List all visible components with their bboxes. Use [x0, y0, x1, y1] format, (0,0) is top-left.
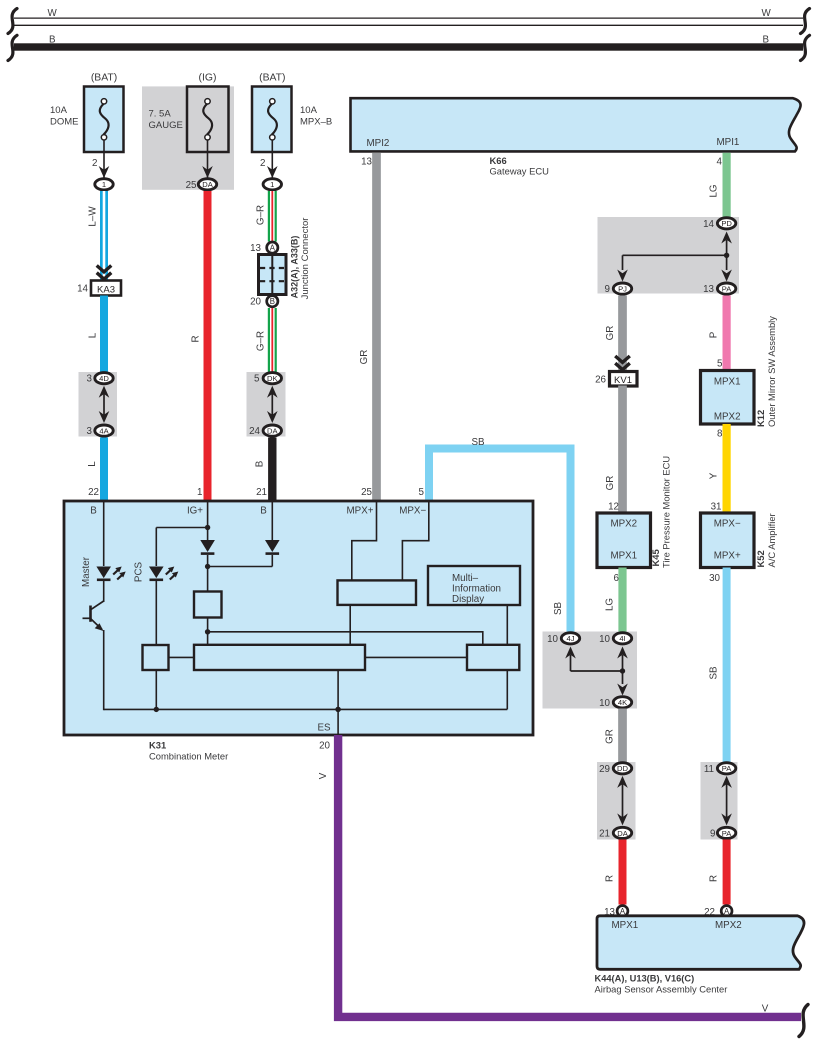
connector oval DA (GAUGE) — [198, 179, 216, 190]
wire LG (MPI1 to PD) — [722, 153, 730, 218]
svg-text:11: 11 — [704, 764, 714, 775]
svg-text:SB: SB — [471, 437, 485, 448]
wire MID box down — [506, 605, 508, 645]
diode D2 (B) — [265, 540, 280, 552]
wire horizontal mid (to right box) — [208, 632, 483, 645]
wire diode D1 down — [207, 555, 209, 592]
svg-text:K66: K66 — [490, 155, 507, 166]
component box IG+ — [194, 592, 222, 618]
wire Master LED to transistor — [103, 581, 105, 602]
connector arrows 4D-4A — [99, 386, 110, 423]
wire MPX box down — [349, 605, 351, 645]
svg-text:B: B — [49, 35, 56, 46]
svg-text:GR: GR — [605, 326, 616, 341]
svg-text:W: W — [762, 8, 772, 19]
connector KA3 box — [91, 281, 121, 296]
svg-text:13: 13 — [703, 284, 714, 295]
connector oval 4J — [561, 633, 579, 644]
svg-text:10: 10 — [599, 634, 610, 645]
wire L upper — [100, 296, 108, 373]
svg-text:A32(A), A33(B): A32(A), A33(B) — [290, 236, 300, 299]
svg-text:1: 1 — [197, 487, 202, 498]
svg-text:W: W — [48, 8, 58, 19]
wire IG+ box down — [207, 618, 209, 646]
gray background 4D-4A — [79, 372, 118, 437]
svg-text:PA: PA — [722, 285, 733, 294]
svg-text:B: B — [763, 35, 770, 46]
fuse DOME arrow — [99, 166, 110, 178]
svg-text:V: V — [318, 772, 329, 779]
svg-text:10A: 10A — [300, 105, 318, 116]
svg-text:B: B — [260, 506, 267, 517]
fuse DOME lead wire — [103, 140, 105, 178]
svg-text:13: 13 — [250, 243, 261, 254]
svg-text:R: R — [709, 875, 720, 882]
transistor Q (meter) — [83, 601, 104, 631]
svg-text:9: 9 — [710, 828, 715, 839]
junction dot PCS rail — [154, 707, 159, 712]
svg-text:(BAT): (BAT) — [91, 73, 117, 84]
svg-text:MPI2: MPI2 — [367, 138, 390, 149]
svg-text:10: 10 — [547, 634, 558, 645]
svg-text:10A: 10A — [50, 105, 68, 116]
svg-text:Information: Information — [452, 584, 501, 595]
svg-text:MPX−: MPX− — [714, 519, 741, 530]
svg-text:L: L — [87, 461, 98, 467]
svg-text:5: 5 — [254, 374, 260, 385]
svg-text:KA3: KA3 — [97, 284, 115, 295]
connector KV1 box — [610, 372, 638, 387]
svg-text:Tire Pressure Monitor ECU: Tire Pressure Monitor ECU — [661, 456, 672, 568]
wire horizontal IG+ to PCS — [156, 527, 207, 529]
connector wiring 4J-4I-4K — [565, 647, 628, 696]
svg-text:Airbag Sensor Assembly Center: Airbag Sensor Assembly Center — [595, 984, 728, 995]
gray background 4J-4I-4K — [543, 632, 638, 709]
svg-text:13: 13 — [361, 157, 372, 168]
wire GR (4K to DD) — [618, 709, 627, 763]
fuse GAUGE arrow — [202, 166, 213, 178]
connector oval 1 (MPX-B) — [263, 179, 281, 190]
fuse GAUGE lead wire — [207, 140, 209, 178]
wire PCS column upper — [155, 528, 157, 567]
meter K31 box — [64, 501, 533, 735]
svg-text:4I: 4I — [619, 634, 625, 643]
ECU K45 box — [597, 513, 651, 568]
wire horizontal D1-D2 — [208, 566, 273, 568]
svg-text:DA: DA — [267, 427, 278, 436]
junction dot IG+ lower — [205, 629, 210, 634]
svg-text:P: P — [709, 331, 720, 338]
wire PCS box to long box — [169, 656, 195, 658]
display box Multi-Information — [428, 566, 520, 605]
connector oval 4D — [95, 373, 113, 384]
fuse MPX-B lead wire — [271, 140, 273, 178]
svg-text:MPI1: MPI1 — [717, 137, 740, 148]
svg-text:MPX–B: MPX–B — [300, 117, 332, 128]
svg-text:4K: 4K — [618, 698, 627, 707]
svg-text:14: 14 — [77, 284, 88, 295]
component box right — [467, 645, 519, 670]
gray background DD-DA — [597, 762, 636, 840]
svg-text:5: 5 — [717, 359, 723, 370]
svg-text:2: 2 — [260, 158, 265, 169]
wire GR (MPI2 to K31) — [372, 153, 381, 501]
svg-text:Combination Meter: Combination Meter — [149, 751, 228, 762]
svg-text:21: 21 — [599, 828, 610, 839]
svg-text:GR: GR — [359, 350, 370, 365]
ECU airbag box — [597, 916, 804, 970]
junction circle B — [267, 296, 278, 307]
bus B left tear — [8, 35, 17, 60]
svg-text:KV1: KV1 — [614, 375, 632, 386]
svg-text:ES: ES — [318, 723, 332, 734]
wire SB (K52 to PA) — [723, 568, 731, 763]
wire diode D2 down — [271, 555, 273, 567]
bus W wire — [14, 18, 803, 25]
connector wiring PD-PJ-PA — [617, 232, 732, 282]
svg-text:Master: Master — [81, 556, 92, 587]
svg-text:B: B — [255, 460, 266, 467]
gray background PA-PA — [701, 762, 738, 840]
svg-text:GR: GR — [605, 476, 616, 491]
connector arrows PA-PA — [721, 776, 732, 826]
wire MPX+ into box — [352, 501, 377, 580]
connector oval 4K — [613, 697, 631, 708]
svg-text:26: 26 — [595, 374, 606, 385]
component box main (long) — [194, 645, 365, 670]
svg-text:4D: 4D — [99, 374, 109, 383]
wire long box to right box — [365, 656, 467, 658]
svg-text:2: 2 — [92, 158, 97, 169]
svg-text:1: 1 — [270, 180, 274, 189]
wire V right tear — [799, 1005, 808, 1037]
svg-text:MPX+: MPX+ — [347, 506, 374, 517]
svg-text:SB: SB — [553, 602, 564, 616]
svg-text:DA: DA — [617, 829, 628, 838]
svg-text:(BAT): (BAT) — [259, 73, 285, 84]
junction dot IG+ — [205, 525, 210, 530]
gray background GAUGE — [142, 86, 234, 189]
svg-text:20: 20 — [250, 297, 261, 308]
svg-text:Display: Display — [452, 594, 484, 605]
svg-text:Outer Mirror SW Assembly: Outer Mirror SW Assembly — [766, 316, 777, 427]
LED Master — [96, 567, 111, 579]
svg-text:MPX−: MPX− — [399, 506, 426, 517]
svg-text:3: 3 — [87, 426, 93, 437]
wire Y (K12 to K52) — [722, 424, 730, 514]
svg-text:4: 4 — [717, 157, 723, 168]
gray background PD-PJ-PA — [598, 217, 740, 294]
svg-text:MPX+: MPX+ — [714, 551, 741, 562]
connector oval DA (airbag) — [613, 827, 631, 838]
wire long box to rail — [337, 670, 339, 710]
svg-text:MPX2: MPX2 — [715, 920, 742, 931]
svg-text:24: 24 — [249, 426, 260, 437]
svg-text:GAUGE: GAUGE — [149, 120, 183, 131]
svg-text:MPX2: MPX2 — [714, 412, 741, 423]
svg-text:MPX1: MPX1 — [612, 920, 639, 931]
svg-text:LG: LG — [605, 598, 616, 611]
svg-text:L: L — [88, 332, 99, 338]
wire pin21 to diode — [271, 501, 273, 540]
gray background DK-DA — [247, 372, 286, 437]
wire bottom rail — [104, 708, 508, 710]
svg-text:PA: PA — [722, 829, 733, 838]
svg-text:SB: SB — [709, 666, 720, 680]
wire L lower — [100, 438, 108, 502]
connector arrows DD-DA — [617, 776, 628, 826]
svg-text:Multi–: Multi– — [452, 573, 479, 584]
fuse DOME box — [84, 87, 124, 153]
wire PCS LED to box — [155, 581, 157, 645]
connector oval 4I — [613, 633, 631, 644]
svg-text:4J: 4J — [566, 634, 574, 643]
fuse MPX-B box — [252, 87, 292, 153]
svg-text:PCS: PCS — [134, 561, 145, 582]
svg-text:DD: DD — [617, 764, 628, 773]
svg-text:G–R: G–R — [256, 205, 267, 225]
svg-text:7. 5A: 7. 5A — [149, 109, 172, 120]
wire G-R lower — [268, 308, 277, 372]
svg-text:22: 22 — [88, 487, 99, 498]
svg-text:4A: 4A — [99, 427, 109, 436]
wire GR (PJ to KV1) — [618, 296, 627, 372]
connector oval 4A — [95, 425, 113, 436]
junction circle A (13) — [617, 906, 628, 917]
svg-text:(IG): (IG) — [199, 73, 217, 84]
svg-text:A/C Amplifier: A/C Amplifier — [766, 513, 777, 567]
component box PCS — [143, 645, 169, 670]
svg-text:5: 5 — [419, 487, 425, 498]
wire pin22 to Master LED — [103, 501, 105, 566]
junction dot long box rail — [335, 707, 340, 712]
svg-text:21: 21 — [256, 487, 267, 498]
svg-text:B: B — [270, 297, 275, 306]
svg-text:Junction Connector: Junction Connector — [300, 218, 311, 300]
svg-text:PJ: PJ — [618, 285, 627, 294]
wire P (PA to K12) — [722, 296, 730, 371]
svg-text:14: 14 — [703, 219, 714, 230]
junction circle A (22) — [721, 906, 732, 917]
svg-text:DA: DA — [202, 180, 213, 189]
fuse MPX-B arrow — [267, 166, 278, 178]
svg-text:V: V — [762, 1004, 769, 1015]
svg-text:MPX2: MPX2 — [610, 519, 637, 530]
svg-text:R: R — [191, 335, 202, 342]
wire right box to rail — [506, 670, 508, 709]
fuse DOME symbol — [101, 99, 106, 104]
chevrons (L-W to KA3) — [97, 266, 112, 272]
svg-text:Gateway ECU: Gateway ECU — [490, 166, 550, 177]
svg-text:B: B — [90, 506, 97, 517]
LED PCS — [149, 567, 164, 579]
svg-text:25: 25 — [361, 487, 372, 498]
connector oval PA (13) — [717, 283, 735, 294]
fuse GAUGE symbol — [205, 99, 210, 104]
connector oval DD — [613, 763, 631, 774]
fuse GAUGE box — [187, 87, 229, 153]
svg-text:G–R: G–R — [256, 331, 267, 351]
svg-text:DK: DK — [267, 374, 278, 383]
connector oval PA (11) — [717, 763, 735, 774]
svg-text:R: R — [605, 875, 616, 882]
svg-text:MPX1: MPX1 — [610, 551, 637, 562]
svg-text:K12: K12 — [755, 410, 766, 427]
wire SB (K31 to 4J) — [429, 449, 571, 633]
switch K12 box — [701, 371, 755, 425]
svg-text:LG: LG — [709, 184, 720, 197]
bus B right tear — [801, 35, 810, 60]
junction circle A — [267, 242, 278, 253]
wire ES to box bottom — [337, 709, 339, 735]
diode D1 (IG+) — [200, 540, 215, 552]
bus W left tear — [8, 9, 17, 34]
ECU K52 box — [701, 513, 755, 568]
wire transistor to bottom rail — [103, 630, 105, 710]
svg-text:K45: K45 — [650, 549, 661, 566]
connector oval DK — [263, 373, 281, 384]
connector oval PD — [717, 218, 735, 229]
svg-text:GR: GR — [605, 729, 616, 744]
svg-text:25: 25 — [186, 180, 197, 191]
svg-text:31: 31 — [711, 502, 722, 513]
wire GR (KV1 to K45) — [618, 386, 627, 514]
wire PCS box to rail — [155, 670, 157, 710]
wire LG (K45 to 4I) — [618, 568, 626, 633]
fuse MPX-B symbol — [270, 99, 275, 104]
svg-text:29: 29 — [599, 764, 610, 775]
bus W right tear — [801, 9, 810, 34]
svg-text:9: 9 — [605, 284, 610, 295]
connector arrows DK-DA — [267, 386, 278, 423]
svg-text:MPX1: MPX1 — [714, 377, 741, 388]
junction dot ES rail — [335, 707, 340, 712]
wire L-W — [100, 191, 108, 281]
svg-text:PD: PD — [721, 219, 732, 228]
svg-text:PA: PA — [722, 764, 733, 773]
wire R (GAUGE to K31) — [204, 191, 212, 501]
wire R (PA to airbag) — [723, 840, 731, 905]
wire R (DA to airbag) — [619, 840, 627, 905]
junction dot D1-D2 — [205, 564, 210, 569]
connector oval PA (9) — [717, 827, 735, 838]
connector oval DA (lower) — [263, 425, 281, 436]
wire MPX- into box — [402, 501, 428, 580]
bus B wire — [14, 43, 803, 50]
svg-text:IG+: IG+ — [187, 506, 203, 517]
svg-text:L–W: L–W — [88, 206, 99, 227]
wire G-R upper — [268, 191, 277, 242]
svg-text:20: 20 — [319, 741, 330, 752]
wire pin1 to diode — [207, 501, 209, 540]
svg-text:A: A — [270, 244, 276, 253]
connector oval PJ — [613, 283, 631, 294]
svg-text:30: 30 — [709, 573, 720, 584]
wire V (ES to right) — [338, 735, 801, 1017]
svg-text:1: 1 — [102, 180, 106, 189]
svg-text:12: 12 — [608, 502, 619, 513]
svg-text:K52: K52 — [755, 550, 766, 567]
svg-text:DOME: DOME — [50, 117, 79, 128]
component box MPX — [338, 580, 417, 605]
svg-text:K31: K31 — [149, 740, 166, 751]
svg-text:10: 10 — [599, 698, 610, 709]
svg-text:8: 8 — [717, 429, 723, 440]
svg-text:3: 3 — [87, 374, 93, 385]
svg-text:K44(A), U13(B), V16(C): K44(A), U13(B), V16(C) — [595, 974, 695, 984]
ECU K66 box — [351, 98, 801, 151]
svg-text:Y: Y — [709, 472, 720, 479]
wire B (DA to K31) — [268, 438, 276, 502]
junction connector A32 box — [259, 255, 287, 295]
connector oval 1 (DOME) — [95, 179, 113, 190]
chevrons (GR to KV1) — [615, 356, 630, 362]
